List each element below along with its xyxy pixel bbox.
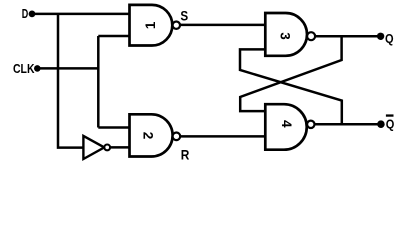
svg-text:4: 4 (279, 120, 294, 128)
svg-text:D: D (22, 6, 29, 21)
svg-text:Q: Q (386, 116, 395, 131)
svg-text:CLK: CLK (13, 61, 35, 76)
svg-text:1: 1 (143, 21, 158, 29)
svg-text:Q: Q (385, 31, 394, 46)
svg-text:S: S (180, 7, 188, 23)
svg-text:2: 2 (141, 132, 156, 140)
svg-text:R: R (181, 146, 190, 162)
svg-text:3: 3 (277, 32, 292, 40)
